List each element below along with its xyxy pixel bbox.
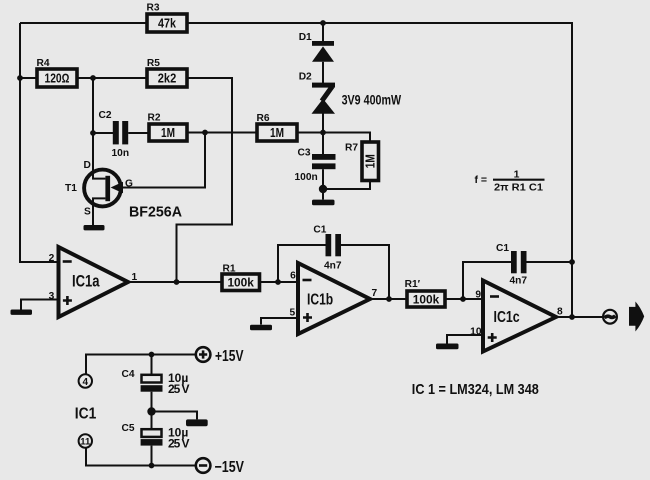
svg-text:9: 9 bbox=[475, 290, 481, 301]
svg-text:D: D bbox=[84, 160, 91, 171]
wire junction at R4/R5 down to C2 node bbox=[92, 78, 94, 133]
node dot IC1b inverting input bbox=[275, 279, 281, 285]
wire R6 node down to C3 bbox=[322, 133, 324, 155]
wire R1' to IC1c pin 9 bbox=[445, 298, 483, 300]
node dot -rail bbox=[149, 463, 155, 469]
svg-text:IC1b: IC1b bbox=[307, 291, 333, 308]
wire D1 to D2 bbox=[322, 62, 324, 83]
diode D1 bbox=[299, 32, 334, 62]
svg-text:R6: R6 bbox=[257, 113, 270, 124]
wire IC1a output to R1 bbox=[128, 281, 222, 283]
svg-text:25 V: 25 V bbox=[168, 437, 190, 451]
svg-text:C1: C1 bbox=[496, 243, 509, 254]
wire C3 ground node over to R7 bottom bbox=[323, 181, 370, 190]
output arrow bbox=[629, 302, 644, 332]
resistor R2 bbox=[148, 113, 188, 142]
wire IC1c output to sine terminal bbox=[556, 316, 602, 318]
wire C2 to R2 bbox=[128, 132, 149, 134]
terminal pin 4 bbox=[79, 374, 92, 388]
svg-text:1M: 1M bbox=[270, 126, 284, 140]
wire IC1a pin 3 to ground bbox=[21, 300, 59, 310]
svg-text:120Ω: 120Ω bbox=[45, 72, 70, 86]
wire IC1b feedback right/down to output bbox=[341, 245, 389, 299]
wire R4 to R5 bbox=[77, 77, 147, 79]
wire left rail to R4 bbox=[20, 77, 37, 79]
svg-text:R4: R4 bbox=[37, 58, 50, 69]
wire IC1c feedback right to right rail bbox=[527, 261, 573, 263]
svg-text:R5: R5 bbox=[147, 58, 160, 69]
svg-text:−15V: −15V bbox=[215, 459, 245, 476]
transistor T1 BF256A bbox=[65, 133, 182, 225]
ground at IC1a pin 3 bbox=[11, 310, 33, 315]
svg-text:D1: D1 bbox=[299, 32, 312, 43]
terminal +15V bbox=[196, 347, 244, 365]
node dot output bbox=[569, 314, 575, 320]
wire mid node to ground bbox=[152, 412, 198, 420]
wire left rail down to IC1a pin 2 bbox=[20, 23, 59, 262]
wire R5 to IC1a output node bbox=[177, 78, 233, 282]
svg-text:2: 2 bbox=[49, 253, 55, 264]
svg-text:R3: R3 bbox=[147, 3, 160, 14]
svg-text:C2: C2 bbox=[99, 110, 112, 121]
node dot top rail D1 bbox=[320, 20, 326, 26]
wire D2 down to R6 node bbox=[322, 113, 324, 133]
svg-text:100k: 100k bbox=[413, 293, 440, 307]
node dot C2/T1 drain bbox=[90, 130, 96, 136]
op-amp IC1a bbox=[49, 247, 138, 317]
zener diode D2 3V9 bbox=[299, 72, 402, 114]
wire gate riser from R2 node down to T1 gate bbox=[123, 133, 205, 188]
svg-text:2k2: 2k2 bbox=[158, 72, 177, 86]
svg-text:BF256A: BF256A bbox=[129, 203, 182, 220]
ground below C3 bbox=[312, 200, 335, 206]
wire R6 to zener node and over to R7 top bbox=[297, 133, 370, 143]
node dot IC1a output feedback bbox=[174, 279, 180, 285]
wire R1 to IC1b pin 6 bbox=[260, 281, 299, 283]
svg-text:C3: C3 bbox=[298, 148, 311, 159]
wire IC1c pin 10 to ground bbox=[447, 335, 483, 344]
resistor R4 bbox=[37, 58, 78, 87]
wire IC1b output to R1' bbox=[370, 298, 407, 300]
svg-text:G: G bbox=[125, 179, 133, 190]
ground at IC1b pin 5 bbox=[250, 325, 272, 331]
resistor R7 bbox=[345, 142, 379, 181]
wire C5 to -rail bbox=[151, 446, 153, 466]
wire top rail left segment bbox=[20, 22, 147, 24]
svg-text:3V9 400mW: 3V9 400mW bbox=[342, 93, 402, 108]
resistor R6 bbox=[257, 113, 298, 141]
svg-text:47k: 47k bbox=[158, 17, 177, 31]
node dot R4/R5/C2 riser bbox=[90, 75, 96, 81]
svg-text:f =: f = bbox=[475, 174, 488, 186]
power rail +15V wire bbox=[86, 355, 196, 375]
capacitor C5 bbox=[122, 423, 190, 451]
wire top rail down to D1 bbox=[322, 23, 324, 41]
op-amp IC1b bbox=[290, 263, 378, 334]
capacitor C4 bbox=[122, 369, 190, 396]
svg-text:T1: T1 bbox=[65, 183, 77, 194]
terminal -15V bbox=[196, 458, 245, 476]
wire IC1b feedback loop left/up bbox=[278, 245, 326, 282]
svg-text:C1: C1 bbox=[313, 225, 326, 236]
svg-text:1M: 1M bbox=[161, 126, 175, 140]
svg-text:+15V: +15V bbox=[215, 348, 244, 365]
wire IC1c feedback left/up bbox=[463, 262, 511, 299]
svg-text:100n: 100n bbox=[295, 172, 318, 183]
resistor R5 bbox=[147, 58, 187, 87]
wire C3 bottom to ground node bbox=[322, 169, 324, 199]
svg-text:2π R1 C1: 2π R1 C1 bbox=[494, 182, 543, 194]
wire C4 to mid node bbox=[151, 392, 153, 430]
resistor R1 bbox=[222, 264, 260, 291]
terminal pin 11 bbox=[79, 434, 92, 447]
svg-text:IC1: IC1 bbox=[75, 406, 97, 423]
wire IC1b pin 5 to ground bbox=[261, 318, 298, 325]
svg-text:6: 6 bbox=[290, 271, 296, 282]
ground at supply midpoint bbox=[186, 419, 208, 426]
svg-text:10n: 10n bbox=[112, 148, 130, 159]
output sine terminal bbox=[603, 310, 617, 324]
node dot right rail feedback bbox=[569, 259, 575, 265]
node dot R2/gate bbox=[202, 130, 208, 136]
node dot C3 ground bbox=[319, 185, 327, 193]
op-amp IC1c bbox=[470, 281, 563, 352]
node dot IC1c inverting input bbox=[460, 296, 466, 302]
ground at IC1c pin 10 bbox=[436, 344, 459, 350]
wire R2 to R6 bbox=[187, 132, 257, 134]
svg-text:4n7: 4n7 bbox=[324, 261, 342, 272]
svg-text:11: 11 bbox=[80, 437, 91, 448]
svg-text:R2: R2 bbox=[148, 113, 161, 124]
resistor R3 bbox=[147, 3, 188, 33]
svg-text:S: S bbox=[84, 207, 91, 218]
capacitor C1 (IC1c feedback) bbox=[496, 243, 527, 287]
svg-text:4: 4 bbox=[83, 377, 89, 388]
svg-text:C5: C5 bbox=[122, 423, 135, 434]
resistor R1' bbox=[405, 279, 445, 307]
node dot IC1b output bbox=[386, 296, 392, 302]
svg-text:1M: 1M bbox=[364, 154, 378, 168]
svg-text:D2: D2 bbox=[299, 72, 312, 83]
svg-text:R1′: R1′ bbox=[405, 279, 421, 290]
wire C2 left lead bbox=[93, 132, 113, 134]
svg-text:4n7: 4n7 bbox=[510, 276, 528, 287]
ground at T1 source bbox=[84, 225, 105, 230]
svg-text:C4: C4 bbox=[122, 369, 135, 380]
wire top rail right segment and right rail down bbox=[187, 23, 572, 317]
capacitor C3 bbox=[295, 148, 336, 183]
power rail -15V wire bbox=[86, 448, 196, 466]
svg-text:IC 1 = LM324, LM 348: IC 1 = LM324, LM 348 bbox=[412, 381, 539, 398]
node dot left rail R4 bbox=[17, 75, 23, 81]
svg-text:8: 8 bbox=[557, 307, 563, 318]
svg-text:IC1a: IC1a bbox=[72, 273, 100, 291]
formula f = 1/(2 pi R1 C1) bbox=[475, 168, 545, 193]
svg-text:R7: R7 bbox=[345, 143, 358, 154]
node dot +rail bbox=[149, 352, 155, 358]
svg-text:IC1c: IC1c bbox=[494, 309, 520, 326]
wire +rail down to C4 bbox=[151, 355, 153, 375]
svg-text:25 V: 25 V bbox=[168, 382, 190, 396]
svg-text:7: 7 bbox=[372, 288, 378, 299]
capacitor C1 (IC1b feedback) bbox=[313, 225, 341, 272]
svg-text:R1: R1 bbox=[223, 264, 236, 275]
svg-text:5: 5 bbox=[290, 308, 296, 319]
node dot R6/D2/C3/R7 bbox=[320, 130, 326, 136]
svg-text:100k: 100k bbox=[227, 276, 254, 290]
capacitor C2 bbox=[99, 110, 130, 159]
node dot mid supply bbox=[147, 407, 155, 415]
